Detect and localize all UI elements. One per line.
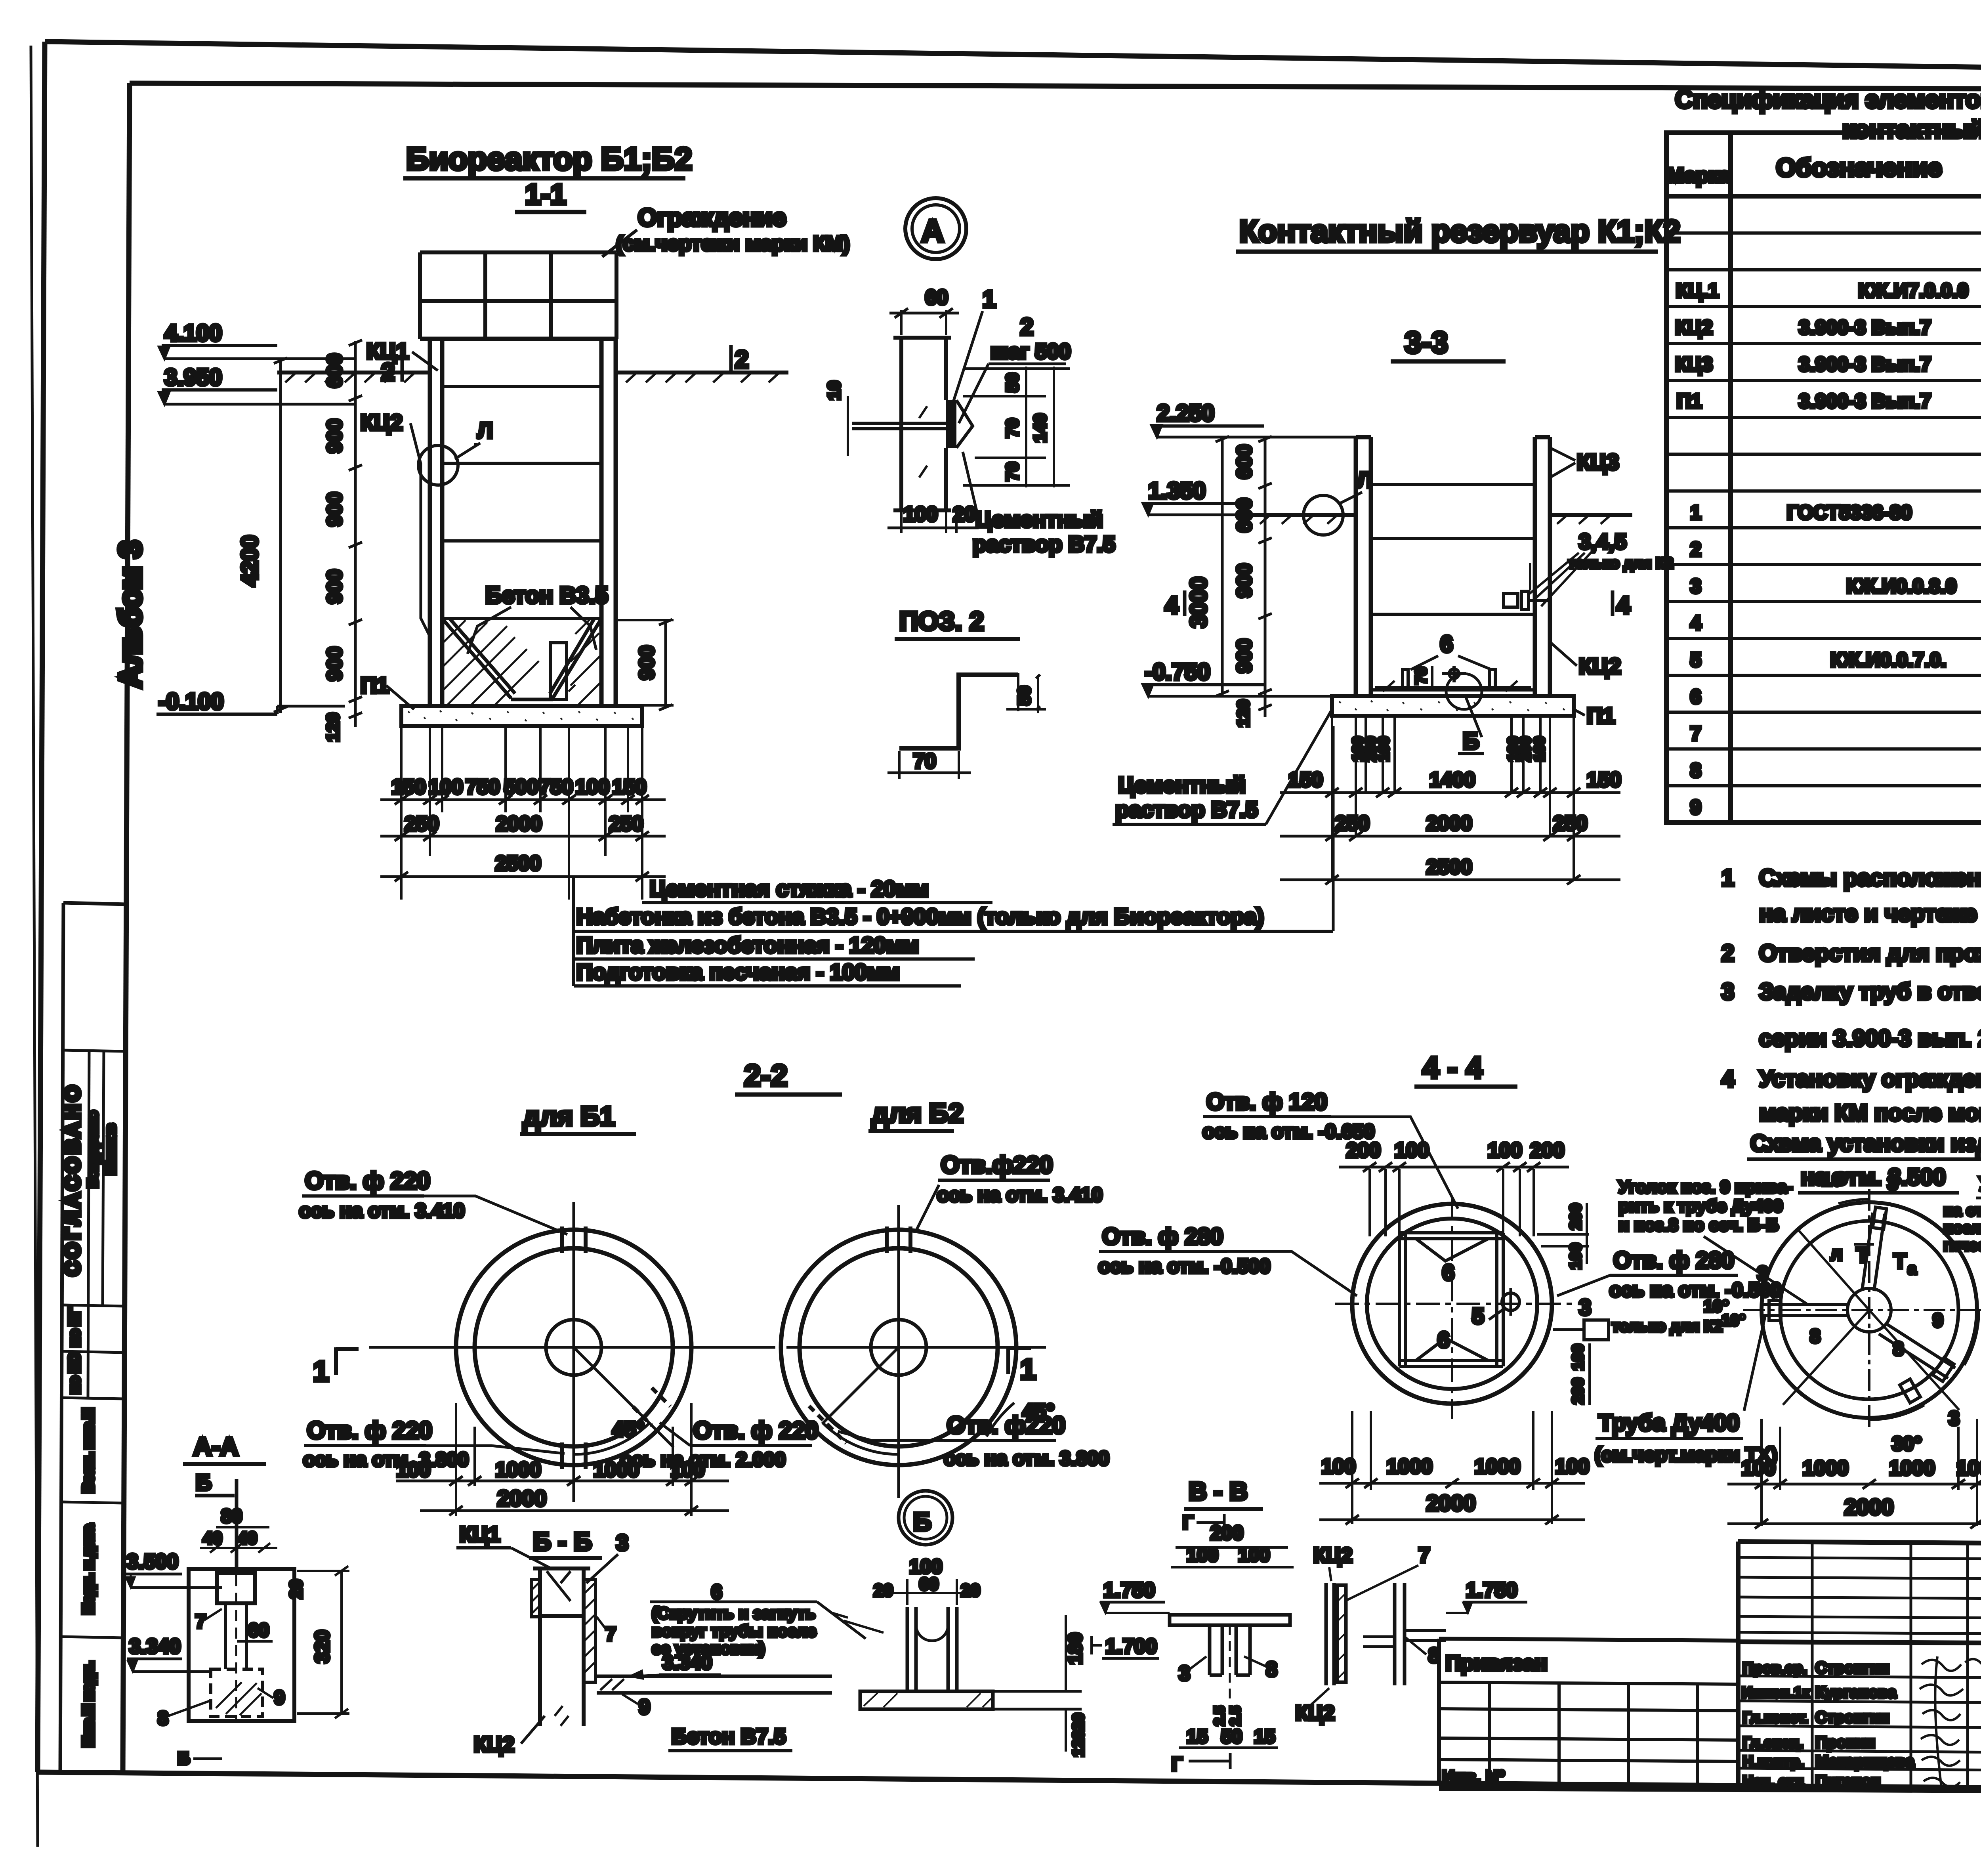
tank walls bbox=[420, 339, 616, 706]
svg-text:КЖ.И0.0.8.0: КЖ.И0.0.8.0 bbox=[1846, 575, 1956, 597]
svg-text:8: 8 bbox=[1690, 759, 1701, 781]
svg-text:60: 60 bbox=[925, 286, 948, 309]
svg-text:100: 100 bbox=[396, 1458, 431, 1481]
svg-text:2.250: 2.250 bbox=[1157, 400, 1214, 426]
svg-text:100: 100 bbox=[1956, 1457, 1981, 1480]
svg-text:на листе и чертеже марки ГП: на листе и чертеже марки ГП bbox=[1759, 901, 1981, 927]
svg-text:6: 6 bbox=[1690, 686, 1701, 708]
break marks bbox=[919, 406, 927, 478]
vertical dim chain x=897 bbox=[349, 340, 362, 727]
tank 4-4 plan bbox=[1352, 1204, 1552, 1404]
svg-text:4: 4 bbox=[1616, 592, 1630, 619]
svg-text:Б: Б bbox=[1463, 728, 1479, 754]
svg-text:Стронгин: Стронгин bbox=[1815, 1659, 1889, 1677]
svg-text:200: 200 bbox=[1210, 1522, 1243, 1544]
node L circle bbox=[1303, 495, 1343, 535]
svg-text:8: 8 bbox=[1810, 1326, 1821, 1347]
svg-text:Подготовка песчаная - 100мм: Подготовка песчаная - 100мм bbox=[576, 959, 900, 984]
svg-text:Гл.конст.: Гл.конст. bbox=[1742, 1710, 1808, 1726]
svg-text:Обозначение: Обозначение bbox=[1776, 153, 1942, 182]
svg-text:Привязан: Привязан bbox=[1445, 1651, 1548, 1675]
svg-text:Альбом 3: Альбом 3 bbox=[113, 541, 147, 688]
svg-text:50: 50 bbox=[1015, 686, 1034, 705]
SEC22 bbox=[299, 1059, 1109, 1516]
svg-text:для Б2: для Б2 bbox=[872, 1098, 964, 1128]
svg-text:80: 80 bbox=[221, 1506, 242, 1527]
svg-text:9: 9 bbox=[274, 1687, 285, 1708]
svg-text:Г: Г bbox=[1172, 1754, 1182, 1775]
svg-text:Набетонка из бетона В3.5 - 0÷: Набетонка из бетона В3.5 - 0÷900мм (толь… bbox=[576, 904, 1264, 929]
svg-text:100: 100 bbox=[1555, 1455, 1590, 1478]
svg-text:100: 100 bbox=[1567, 1243, 1584, 1270]
svg-text:КЦ2: КЦ2 bbox=[1579, 653, 1621, 678]
tank walls bbox=[1356, 437, 1550, 696]
svg-text:100: 100 bbox=[429, 776, 463, 799]
inner frame left bbox=[123, 83, 130, 1775]
svg-text:Отв. ф220: Отв. ф220 bbox=[947, 1412, 1065, 1439]
svg-text:1: 1 bbox=[1020, 1354, 1036, 1385]
B-B wall KC1 bbox=[533, 1568, 590, 1726]
svg-text:Макаршцева: Макаршцева bbox=[1815, 1753, 1914, 1770]
svg-text:Инжен.1к: Инжен.1к bbox=[1742, 1685, 1810, 1701]
right dim stack bbox=[963, 367, 1070, 487]
svg-text:30°: 30° bbox=[1892, 1433, 1922, 1455]
anchor rod bbox=[852, 422, 946, 425]
svg-text:А: А bbox=[921, 213, 944, 248]
svg-text:Бетон В3.5: Бетон В3.5 bbox=[485, 583, 608, 608]
svg-text:200: 200 bbox=[1567, 1204, 1584, 1230]
svg-text:4: 4 bbox=[1690, 612, 1701, 634]
svg-text:600: 600 bbox=[323, 353, 346, 388]
svg-text:4200: 4200 bbox=[237, 535, 263, 586]
4-4 dims below bbox=[1352, 1411, 1552, 1524]
svg-text:750: 750 bbox=[539, 776, 573, 799]
svg-text:100: 100 bbox=[1187, 1545, 1218, 1566]
svg-text:70: 70 bbox=[1412, 667, 1430, 685]
svg-text:Л: Л bbox=[1357, 467, 1372, 492]
svg-text:Отв.ф220: Отв.ф220 bbox=[941, 1152, 1053, 1178]
svg-text:Отв. ф 280: Отв. ф 280 bbox=[1613, 1247, 1734, 1273]
svg-text:1.750: 1.750 bbox=[1103, 1579, 1155, 1602]
svg-text:на отм. 3.340 устанавливать: на отм. 3.340 устанавливать bbox=[1943, 1202, 1981, 1219]
svg-text:(Скрутить и загнуть: (Скрутить и загнуть bbox=[652, 1604, 815, 1622]
svg-text:Отв. ф 220: Отв. ф 220 bbox=[305, 1167, 430, 1194]
svg-text:Л: Л bbox=[477, 418, 493, 443]
svg-text:3.340: 3.340 bbox=[662, 1651, 712, 1673]
svg-text:Труба Ду400: Труба Ду400 bbox=[1599, 1410, 1739, 1436]
svg-text:Курганова: Курганова bbox=[1815, 1684, 1897, 1701]
svg-text:-0.100: -0.100 bbox=[158, 689, 223, 714]
svg-text:ось на отм. 3.410: ось на отм. 3.410 bbox=[299, 1200, 465, 1222]
4200 chain bbox=[279, 359, 282, 713]
svg-text:3: 3 bbox=[1757, 1262, 1768, 1284]
radial guides bbox=[1783, 1230, 1959, 1410]
svg-text:КЖ.И0.0.7.0.: КЖ.И0.0.7.0. bbox=[1830, 649, 1946, 671]
svg-text:5: 5 bbox=[1690, 649, 1701, 671]
svg-text:Т: Т bbox=[1856, 1244, 1869, 1267]
svg-text:Цементная стяжка - 20мм: Цементная стяжка - 20мм bbox=[650, 876, 929, 901]
svg-text:60: 60 bbox=[919, 1574, 939, 1594]
svg-text:750: 750 bbox=[466, 776, 500, 799]
TITLEBLOCK bbox=[1439, 1542, 1981, 1829]
svg-text:-0.750: -0.750 bbox=[1145, 659, 1210, 685]
svg-text:1: 1 bbox=[313, 1356, 329, 1387]
svg-text:1.700: 1.700 bbox=[1105, 1635, 1157, 1658]
dim 900 cone right bbox=[664, 620, 667, 705]
svg-text:Пронин: Пронин bbox=[1815, 1734, 1875, 1751]
svg-text:Отв. ф 120: Отв. ф 120 bbox=[1206, 1089, 1327, 1115]
svg-text:Гл.спец.: Гл.спец. bbox=[1742, 1735, 1803, 1751]
svg-text:100: 100 bbox=[1395, 1139, 1429, 1162]
dim 70 floor bbox=[1431, 666, 1433, 692]
svg-text:В - В: В - В bbox=[1189, 1477, 1248, 1505]
dims below left plan bbox=[1762, 1419, 1977, 1526]
svg-text:Инв.N подл.: Инв.N подл. bbox=[80, 1662, 96, 1747]
svg-text:2000: 2000 bbox=[1844, 1494, 1894, 1519]
svg-text:60: 60 bbox=[248, 1620, 269, 1641]
svg-text:Спецификация элементов на оди: Спецификация элементов на один биореакто… bbox=[1675, 86, 1981, 113]
svg-text:20: 20 bbox=[1070, 1713, 1087, 1731]
svg-text:6: 6 bbox=[1437, 1327, 1450, 1352]
svg-text:а: а bbox=[1908, 1260, 1917, 1278]
svg-text:70: 70 bbox=[913, 750, 936, 773]
svg-text:Инв. Nº: Инв. Nº bbox=[1442, 1767, 1505, 1786]
connecting line to 3-3 plate bbox=[572, 877, 575, 986]
A-A body bbox=[189, 1569, 294, 1721]
left strip box bbox=[60, 903, 63, 1773]
section mark T1 right bbox=[1006, 1347, 1010, 1374]
svg-text:КЦ.1: КЦ.1 bbox=[1676, 279, 1719, 302]
svg-text:3: 3 bbox=[1949, 1407, 1960, 1429]
svg-text:1.350: 1.350 bbox=[1148, 478, 1206, 504]
svg-text:10: 10 bbox=[824, 381, 844, 400]
node A marker bbox=[905, 198, 966, 259]
svg-text:250: 250 bbox=[1335, 812, 1370, 835]
leader from Truba label bbox=[1744, 1316, 1765, 1411]
svg-text:Плита железобетонная - 120мм: Плита железобетонная - 120мм bbox=[576, 932, 919, 957]
svg-text:100: 100 bbox=[1238, 1545, 1270, 1566]
svg-text:Отверстия для прохода технолог: Отверстия для прохода технологических тр… bbox=[1759, 940, 1981, 966]
svg-text:7: 7 bbox=[1418, 1544, 1430, 1567]
svg-text:120: 120 bbox=[1070, 1731, 1087, 1757]
svg-text:2: 2 bbox=[381, 359, 395, 386]
svg-text:Стронгин: Стронгин bbox=[1815, 1709, 1889, 1726]
svg-text:Контактный резервуар К1;К2: Контактный резервуар К1;К2 bbox=[1239, 214, 1680, 248]
svg-text:4 - 4: 4 - 4 bbox=[1422, 1051, 1483, 1085]
svg-text:Б: Б bbox=[913, 1507, 931, 1536]
svg-text:Заделку труб в отверстиях прои: Заделку труб в отверстиях производить по… bbox=[1759, 979, 1981, 1005]
main frame top bbox=[45, 42, 1981, 75]
svg-text:по КГ: по КГ bbox=[66, 1309, 82, 1347]
svg-text:3.900-3 Вып.7: 3.900-3 Вып.7 bbox=[1799, 390, 1931, 412]
extension verticals below bbox=[1332, 717, 1574, 880]
svg-text:Пигснон: Пигснон bbox=[1815, 1773, 1880, 1790]
svg-text:Ограждение: Ограждение bbox=[638, 204, 786, 231]
svg-text:70: 70 bbox=[1003, 462, 1022, 481]
svg-text:Бондаренко: Бондаренко bbox=[86, 1111, 100, 1187]
svg-text:5: 5 bbox=[1472, 1303, 1484, 1328]
SEC44 bbox=[1098, 1051, 1782, 1524]
svg-text:2000: 2000 bbox=[1426, 812, 1472, 835]
svg-text:Б: Б bbox=[177, 1749, 190, 1768]
svg-text:КЦ1: КЦ1 bbox=[460, 1523, 500, 1546]
svg-text:8: 8 bbox=[1266, 1658, 1277, 1681]
svg-text:100: 100 bbox=[1741, 1457, 1776, 1480]
svg-text:КЦ3: КЦ3 bbox=[1577, 449, 1619, 474]
svg-text:120: 120 bbox=[323, 713, 343, 741]
svg-text:КЖ.И7.0.0.0: КЖ.И7.0.0.0 bbox=[1858, 279, 1968, 302]
svg-text:9: 9 bbox=[1690, 796, 1701, 818]
svg-text:2000: 2000 bbox=[1426, 1490, 1476, 1515]
svg-text:2: 2 bbox=[1721, 940, 1734, 966]
DETAILS bbox=[125, 1432, 1527, 1775]
svg-text:рить к трубе Ду400: рить к трубе Ду400 bbox=[1618, 1196, 1783, 1216]
pipes bbox=[1761, 1207, 1955, 1403]
svg-text:Схемы расположения биореакторо: Схемы расположения биореакторов и контак… bbox=[1759, 865, 1981, 891]
svg-text:20: 20 bbox=[874, 1581, 893, 1600]
svg-text:15: 15 bbox=[1187, 1726, 1208, 1747]
main title block bbox=[1439, 1542, 1981, 1793]
svg-text:4: 4 bbox=[1165, 592, 1179, 619]
svg-text:Цементный: Цементный bbox=[1118, 772, 1246, 797]
svg-text:200: 200 bbox=[1569, 1378, 1587, 1404]
svg-text:3: 3 bbox=[1887, 1172, 1898, 1194]
svg-text:Н.контр.: Н.контр. bbox=[1742, 1754, 1804, 1770]
svg-text:1.750: 1.750 bbox=[1466, 1579, 1517, 1602]
inner frame square bbox=[1399, 1233, 1503, 1366]
svg-text:КЦ2: КЦ2 bbox=[1675, 316, 1713, 338]
svg-text:3.900-3 Вып.7: 3.900-3 Вып.7 bbox=[1799, 316, 1931, 338]
svg-text:3.340: 3.340 bbox=[129, 1635, 181, 1658]
svg-text:900: 900 bbox=[323, 647, 346, 681]
right wall KC2 bbox=[1324, 1583, 1328, 1685]
svg-text:8: 8 bbox=[158, 1708, 168, 1729]
svg-text:шаг 500: шаг 500 bbox=[990, 340, 1071, 363]
svg-text:2000: 2000 bbox=[496, 812, 542, 835]
svg-text:900: 900 bbox=[323, 419, 346, 453]
ring joint lines bbox=[442, 386, 601, 619]
svg-text:Подп. и дата: Подп. и дата bbox=[80, 1524, 96, 1614]
svg-text:900: 900 bbox=[1233, 564, 1256, 598]
svg-text:900: 900 bbox=[323, 492, 346, 527]
bottom plate P1 bbox=[401, 706, 642, 726]
svg-text:раствор В7.5: раствор В7.5 bbox=[973, 531, 1115, 556]
bottom plate bbox=[1332, 696, 1574, 716]
ground line bbox=[277, 373, 788, 382]
svg-text:ГОСТ5336-80: ГОСТ5336-80 bbox=[1787, 501, 1912, 523]
svg-text:7: 7 bbox=[605, 1624, 616, 1645]
tank B2 plan bbox=[781, 1230, 1016, 1465]
SEC33 bbox=[1113, 214, 1680, 885]
svg-text:П1: П1 bbox=[1677, 390, 1702, 412]
svg-text:и поз.8 по сеч. Б-Б: и поз.8 по сеч. Б-Б bbox=[1618, 1215, 1779, 1235]
svg-text:П1: П1 bbox=[361, 672, 389, 697]
bioreactor plan at 3.500 bbox=[1762, 1202, 1977, 1418]
svg-text:900: 900 bbox=[323, 569, 346, 604]
svg-text:320: 320 bbox=[311, 1630, 333, 1663]
MSB bbox=[1618, 1169, 1981, 1528]
svg-text:КЦ2: КЦ2 bbox=[1296, 1702, 1335, 1725]
svg-text:8: 8 bbox=[1893, 1339, 1904, 1360]
signature scribbles bbox=[1920, 1656, 1981, 1787]
svg-text:ось на отм. -0.500: ось на отм. -0.500 bbox=[1098, 1255, 1271, 1277]
svg-text:1000: 1000 bbox=[594, 1458, 639, 1481]
svg-text:Отв. ф 280: Отв. ф 280 bbox=[1102, 1224, 1223, 1249]
svg-text:1000: 1000 bbox=[1387, 1455, 1433, 1478]
svg-text:Б: Б bbox=[196, 1470, 212, 1495]
svg-text:9: 9 bbox=[639, 1696, 650, 1719]
svg-text:после монтажа техноло-: после монтажа техноло- bbox=[1943, 1219, 1981, 1237]
svg-text:45°: 45° bbox=[612, 1418, 645, 1441]
svg-text:100: 100 bbox=[1488, 1139, 1522, 1162]
svg-text:Б - Б: Б - Б bbox=[533, 1527, 592, 1556]
svg-text:100: 100 bbox=[1569, 1344, 1587, 1371]
center lines bbox=[1335, 1197, 1581, 1419]
svg-text:900: 900 bbox=[1233, 639, 1256, 673]
svg-text:по КО: по КО bbox=[66, 1353, 82, 1394]
svg-text:Нач. отд: Нач. отд bbox=[1742, 1773, 1804, 1790]
extension verticals below plate bbox=[401, 727, 642, 900]
svg-text:контактный резервуар: контактный резервуар bbox=[1842, 116, 1981, 143]
signature rows bbox=[1738, 1542, 1981, 1790]
svg-text:2-2: 2-2 bbox=[744, 1059, 788, 1093]
svg-text:50: 50 bbox=[1221, 1726, 1242, 1747]
svg-text:1000: 1000 bbox=[1475, 1455, 1521, 1478]
embed plate left bbox=[531, 1580, 540, 1617]
embed plate bbox=[946, 400, 956, 448]
svg-text:ПОЗ. 2: ПОЗ. 2 bbox=[899, 606, 984, 636]
svg-text:3: 3 bbox=[616, 1530, 628, 1555]
svg-text:140: 140 bbox=[1031, 413, 1050, 442]
svg-text:6: 6 bbox=[1442, 1260, 1454, 1285]
svg-text:1: 1 bbox=[983, 286, 996, 312]
svg-text:1000: 1000 bbox=[495, 1458, 541, 1481]
svg-text:10°: 10° bbox=[1822, 1169, 1849, 1190]
tank B1 plan bbox=[456, 1230, 691, 1465]
svg-text:20: 20 bbox=[961, 1581, 980, 1600]
svg-text:2.5: 2.5 bbox=[1211, 1706, 1227, 1726]
svg-text:раствор В7.5: раствор В7.5 bbox=[1115, 797, 1258, 822]
ground line bbox=[1252, 515, 1632, 524]
detail A wall bbox=[893, 337, 951, 511]
svg-text:марки КМ после монтажа техноло: марки КМ после монтажа технологического … bbox=[1759, 1100, 1981, 1126]
svg-text:3.900-3 Вып.7: 3.900-3 Вып.7 bbox=[1799, 353, 1931, 375]
plate 9 horizontal bbox=[597, 1675, 832, 1678]
svg-text:Пров.ер.: Пров.ер. bbox=[1742, 1660, 1807, 1677]
svg-text:вокруг трубы после: вокруг трубы после bbox=[652, 1622, 816, 1640]
NOTES bbox=[1721, 865, 1981, 1193]
table grid bbox=[1666, 133, 1981, 823]
svg-text:7: 7 bbox=[195, 1611, 206, 1632]
svg-text:2: 2 bbox=[1690, 538, 1701, 560]
svg-text:ось на отм. 3.800: ось на отм. 3.800 bbox=[944, 1447, 1109, 1469]
svg-text:только для К2: только для К2 bbox=[1568, 555, 1673, 572]
svg-text:3000: 3000 bbox=[1186, 577, 1212, 628]
svg-text:3: 3 bbox=[1690, 575, 1701, 597]
svg-text:Марка: Марка bbox=[1667, 164, 1731, 187]
svg-text:л: л bbox=[1830, 1244, 1843, 1265]
svg-text:2000: 2000 bbox=[497, 1486, 547, 1511]
TABLE bbox=[1666, 86, 1981, 823]
node L circle bbox=[418, 445, 458, 485]
svg-text:А-А: А-А bbox=[193, 1432, 239, 1461]
svg-text:1-1: 1-1 bbox=[525, 179, 566, 210]
svg-text:20: 20 bbox=[286, 1580, 306, 1599]
svg-text:6: 6 bbox=[711, 1581, 722, 1603]
arcs and labels bbox=[1838, 1199, 1869, 1204]
svg-text:Уголки поз. 8: Уголки поз. 8 bbox=[1979, 1173, 1981, 1195]
svg-text:КЦ2: КЦ2 bbox=[361, 410, 403, 435]
svg-text:Установку ограждения биореакто: Установку ограждения биореактора произво… bbox=[1759, 1066, 1981, 1092]
DETA bbox=[824, 198, 1115, 779]
right flange (only K2) bbox=[1584, 1320, 1609, 1340]
svg-text:3,4,5: 3,4,5 bbox=[1579, 530, 1626, 554]
svg-text:15: 15 bbox=[1254, 1726, 1275, 1747]
svg-text:120: 120 bbox=[1234, 699, 1252, 727]
svg-text:Отв. ф 220: Отв. ф 220 bbox=[307, 1417, 432, 1444]
svg-text:100: 100 bbox=[1321, 1455, 1356, 1478]
svg-text:10°: 10° bbox=[1704, 1297, 1729, 1315]
svg-text:Шипков: Шипков bbox=[103, 1124, 118, 1174]
svg-text:250: 250 bbox=[1553, 812, 1588, 835]
fence bbox=[420, 252, 616, 339]
svg-text:КЦ3: КЦ3 bbox=[1675, 353, 1713, 375]
B1 dims below bbox=[456, 1403, 691, 1516]
svg-text:ось на отм. -0.500: ось на отм. -0.500 bbox=[1609, 1279, 1782, 1301]
svg-text:150: 150 bbox=[612, 776, 647, 799]
svg-text:Уголок поз. 9 прива-: Уголок поз. 9 прива- bbox=[1618, 1177, 1793, 1197]
privyazan sub-table bbox=[1439, 1639, 1740, 1788]
svg-text:для Б1: для Б1 bbox=[523, 1101, 615, 1131]
svg-text:1000: 1000 bbox=[1803, 1457, 1849, 1480]
svg-text:150: 150 bbox=[1288, 768, 1323, 791]
svg-text:Схема установки изделий МСБ в: Схема установки изделий МСБ в биореактор… bbox=[1750, 1131, 1981, 1156]
ring lines bbox=[1371, 485, 1535, 690]
svg-text:(см.чертежи марки КМ): (см.чертежи марки КМ) bbox=[616, 232, 850, 255]
svg-text:3.950: 3.950 bbox=[164, 365, 222, 390]
svg-text:2500: 2500 bbox=[495, 852, 541, 875]
svg-text:3-3: 3-3 bbox=[1405, 326, 1448, 359]
flange right wall (3,4,5) bbox=[1504, 594, 1518, 607]
svg-text:Взам. инв.N: Взам. инв.N bbox=[80, 1408, 96, 1492]
svg-text:2: 2 bbox=[735, 346, 748, 373]
svg-text:50: 50 bbox=[1003, 373, 1022, 392]
svg-text:1000: 1000 bbox=[1889, 1457, 1935, 1480]
svg-text:ось на отм. 3.800: ось на отм. 3.800 bbox=[303, 1448, 469, 1471]
upper mini grid bbox=[1738, 1557, 1981, 1634]
svg-text:250: 250 bbox=[609, 812, 643, 835]
svg-text:150: 150 bbox=[391, 776, 426, 799]
B2 openings bbox=[809, 1226, 910, 1443]
svg-text:200: 200 bbox=[1530, 1139, 1565, 1162]
svg-text:только для К2: только для К2 bbox=[1612, 1318, 1722, 1335]
svg-text:3.500: 3.500 bbox=[127, 1550, 178, 1573]
svg-text:Цементный: Цементный bbox=[975, 507, 1103, 532]
vertical dim chain bbox=[1258, 436, 1272, 717]
svg-text:100: 100 bbox=[1531, 736, 1548, 761]
svg-text:Отв. ф 220: Отв. ф 220 bbox=[693, 1417, 819, 1444]
svg-text:Т: Т bbox=[1894, 1250, 1907, 1273]
svg-text:100: 100 bbox=[1376, 736, 1392, 761]
svg-text:2: 2 bbox=[1020, 313, 1033, 340]
svg-text:180: 180 bbox=[1065, 1633, 1086, 1664]
svg-text:1: 1 bbox=[1721, 865, 1734, 891]
B1 45deg arc bbox=[574, 1423, 649, 1454]
svg-text:3: 3 bbox=[1579, 1295, 1591, 1320]
svg-text:100: 100 bbox=[903, 503, 938, 526]
svg-text:серии 3.900-3 вып. 2/82.: серии 3.900-3 вып. 2/82. bbox=[1759, 1026, 1981, 1051]
SEC11 bbox=[156, 141, 1333, 986]
